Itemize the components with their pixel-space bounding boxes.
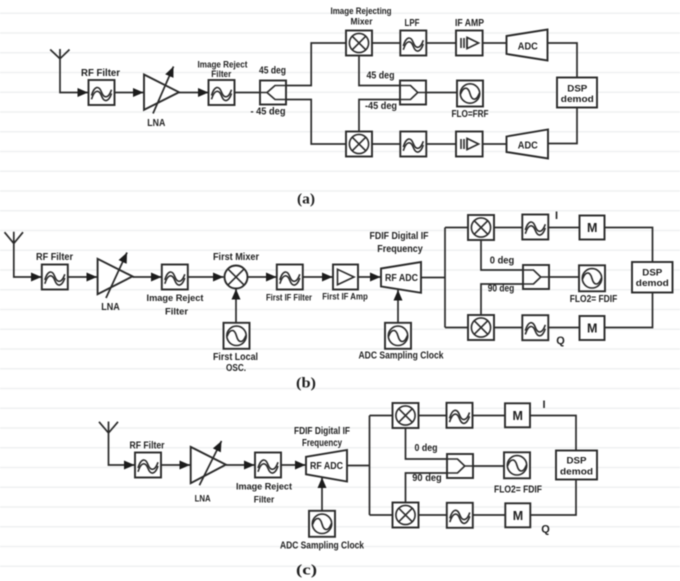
svg-text:I: I (542, 399, 545, 411)
svg-text:0 deg: 0 deg (490, 255, 515, 266)
svg-text:Filter: Filter (211, 69, 231, 80)
svg-text:90 deg: 90 deg (412, 473, 442, 484)
svg-text:Image Reject: Image Reject (236, 481, 293, 492)
svg-text:ADC Sampling Clock: ADC Sampling Clock (359, 351, 444, 362)
svg-text:RF Filter: RF Filter (81, 68, 120, 79)
svg-text:0 deg: 0 deg (415, 443, 438, 454)
svg-text:Q: Q (541, 523, 550, 535)
svg-text:demod: demod (636, 278, 669, 289)
svg-text:(c): (c) (296, 563, 317, 579)
svg-text:FLO2= FDIF: FLO2= FDIF (494, 484, 542, 495)
svg-text:Image Reject: Image Reject (147, 293, 205, 304)
svg-text:LNA: LNA (101, 302, 120, 313)
svg-text:Frequency: Frequency (302, 438, 342, 449)
svg-text:(b): (b) (296, 376, 316, 392)
svg-text:ADC: ADC (518, 40, 538, 52)
svg-text:ADC Sampling Clock: ADC Sampling Clock (280, 541, 364, 552)
svg-text:First Mixer: First Mixer (213, 252, 259, 263)
svg-text:FDIF Digital IF: FDIF Digital IF (294, 426, 350, 437)
svg-text:LNA: LNA (147, 118, 165, 129)
svg-text:DSP: DSP (567, 83, 588, 94)
svg-text:Filter: Filter (165, 307, 188, 318)
svg-text:demod: demod (561, 94, 594, 105)
svg-text:First Local: First Local (213, 352, 258, 363)
svg-text:First IF Filter: First IF Filter (266, 292, 312, 303)
svg-text:DSP: DSP (642, 268, 663, 279)
svg-text:90 deg: 90 deg (488, 283, 515, 294)
svg-text:Mixer: Mixer (351, 17, 373, 28)
svg-text:FDIF Digital IF: FDIF Digital IF (370, 231, 429, 242)
svg-text:RF Filter: RF Filter (130, 441, 165, 452)
svg-text:Q: Q (556, 335, 565, 347)
svg-text:LPF: LPF (405, 18, 420, 29)
svg-text:DSP: DSP (567, 456, 588, 467)
svg-text:45 deg: 45 deg (367, 70, 395, 81)
svg-text:45 deg: 45 deg (259, 66, 286, 77)
svg-text:FLO=FRF: FLO=FRF (452, 109, 489, 120)
svg-text:IF AMP: IF AMP (455, 18, 484, 29)
svg-text:(a): (a) (297, 192, 315, 208)
svg-text:Filter: Filter (254, 495, 275, 506)
svg-text:ADC: ADC (518, 139, 538, 151)
svg-text:Frequency: Frequency (377, 244, 423, 255)
svg-text:First IF Amp: First IF Amp (322, 292, 368, 303)
svg-text:- 45 deg: - 45 deg (251, 106, 286, 117)
svg-text:Image Rejecting: Image Rejecting (331, 6, 392, 17)
svg-text:RF ADC: RF ADC (310, 461, 343, 472)
svg-text:OSC.: OSC. (226, 363, 246, 374)
svg-text:demod: demod (560, 466, 593, 477)
svg-text:RF ADC: RF ADC (385, 273, 418, 284)
svg-text:RF Filter: RF Filter (36, 252, 73, 263)
svg-text:I: I (555, 210, 558, 222)
svg-text:LNA: LNA (195, 494, 211, 505)
svg-text:-45 deg: -45 deg (365, 101, 397, 112)
svg-text:FLO2= FDIF: FLO2= FDIF (570, 294, 618, 305)
